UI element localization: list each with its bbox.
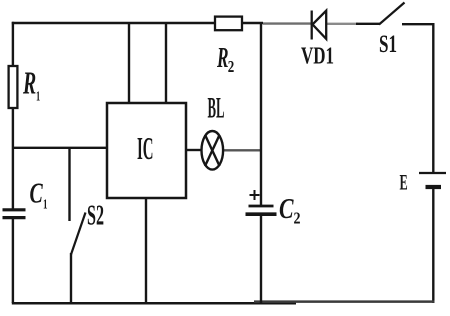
wire mid horizontal (left rail to IC left pin) — [13, 147, 107, 149]
svg-text:BL: BL — [208, 92, 225, 125]
polarity plus of C2 — [250, 190, 260, 200]
wire S1 right contact horizontal — [402, 23, 434, 25]
wire top-left horizontal (left rail to R2) — [12, 22, 215, 24]
svg-text:1: 1 — [36, 90, 40, 105]
svg-text:R: R — [216, 42, 228, 74]
svg-text:C: C — [279, 194, 294, 225]
svg-text:C: C — [30, 179, 43, 210]
wire top-mid horizontal (R2 to VD1 junction) — [242, 22, 263, 24]
svg-text:E: E — [400, 170, 408, 195]
wire C2 rail upper vertical (top junction to C2) — [260, 23, 262, 205]
svg-text:2: 2 — [294, 209, 301, 228]
capacitor C1 — [3, 210, 26, 218]
svg-text:1: 1 — [43, 198, 48, 213]
wire C2 rail lower vertical (C2 to bottom rail) — [260, 216, 262, 304]
wire right rail lower (battery to bottom rail) — [432, 187, 434, 303]
svg-text:R: R — [22, 65, 36, 101]
wire bottom rail left segment — [12, 302, 296, 305]
wire top horizontal (junction to diode cathode) — [263, 22, 311, 24]
wire S2 branch lower vertical — [70, 253, 72, 303]
diode VD1 — [312, 11, 327, 40]
wire IC bottom pin vertical — [145, 198, 147, 303]
wire right rail upper (top corner down to battery) — [432, 23, 434, 173]
lamp BL — [202, 131, 224, 170]
wire left rail top (top corner to R1) — [12, 22, 14, 66]
svg-text:VD1: VD1 — [301, 43, 334, 69]
wire left rail bottom (C1 to bottom rail) — [12, 218, 14, 303]
wire left rail middle (R1 to C1) — [12, 108, 14, 210]
resistor R1 — [9, 66, 18, 108]
svg-text:S2: S2 — [87, 200, 104, 232]
svg-text:2: 2 — [228, 57, 235, 76]
wire IC top pin 2 vertical — [165, 23, 167, 103]
wire S2 branch upper vertical — [68, 148, 70, 221]
wire IC right pin to lamp — [186, 149, 202, 151]
switch S1 blade — [379, 3, 405, 25]
wire gray-to-black to switch — [356, 23, 380, 25]
resistor R2 — [215, 17, 242, 31]
wire IC top pin 1 vertical — [128, 23, 130, 103]
svg-text:IC: IC — [137, 130, 154, 166]
capacitor C2 — [246, 206, 277, 214]
svg-text:S1: S1 — [379, 31, 397, 58]
switch S2 blade — [71, 213, 86, 255]
wire bottom rail right segment — [254, 300, 435, 303]
battery E long plate — [419, 172, 446, 174]
IC box U1 — [107, 103, 186, 198]
wire lamp to C2 rail — [223, 149, 263, 151]
wire diode to S1 left contact — [327, 23, 358, 25]
battery E short plate — [426, 185, 442, 189]
